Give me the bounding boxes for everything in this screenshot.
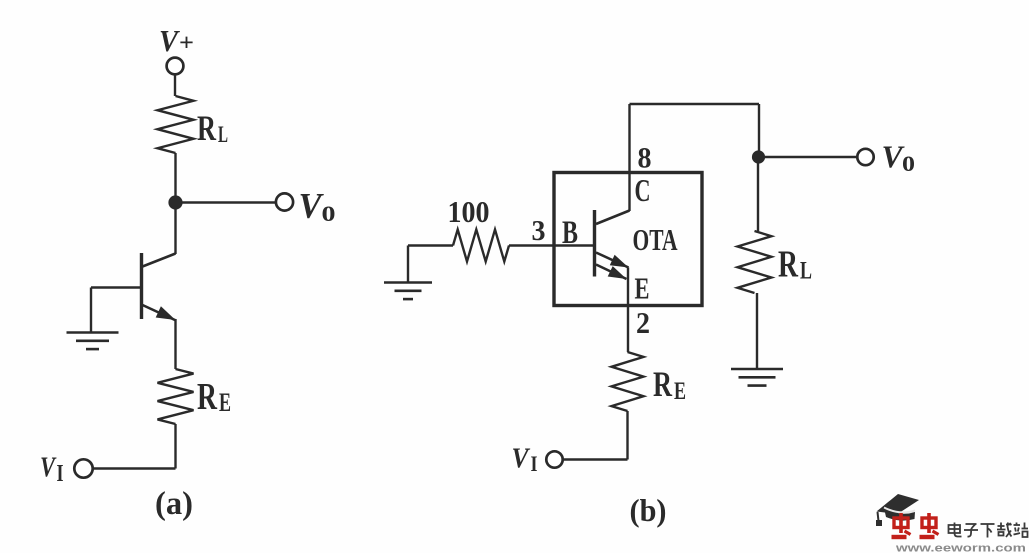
svg-text:I: I (57, 461, 64, 487)
svg-text:3: 3 (532, 215, 546, 247)
svg-text:0: 0 (322, 201, 336, 226)
svg-text:100: 100 (448, 194, 490, 229)
svg-text:(a): (a) (155, 486, 193, 522)
svg-text:0: 0 (902, 151, 915, 176)
svg-text:V: V (40, 452, 57, 484)
svg-text:(b): (b) (630, 492, 667, 528)
svg-text:V: V (512, 443, 531, 475)
svg-text:E: E (674, 378, 686, 405)
svg-text:V: V (299, 186, 325, 226)
svg-text:E: E (635, 271, 650, 306)
svg-text:L: L (218, 122, 228, 147)
svg-text:www.eeworm.com: www.eeworm.com (895, 543, 1026, 553)
svg-text:V: V (159, 23, 180, 58)
svg-text:L: L (800, 258, 812, 285)
svg-text:E: E (219, 388, 231, 417)
svg-text:OTA: OTA (633, 222, 678, 257)
svg-text:+: + (179, 31, 194, 57)
svg-text:R: R (197, 108, 217, 148)
svg-text:2: 2 (636, 305, 650, 340)
svg-text:I: I (531, 451, 538, 476)
svg-text:R: R (653, 364, 673, 404)
svg-text:R: R (778, 244, 798, 286)
svg-text:R: R (197, 376, 217, 418)
svg-text:8: 8 (638, 142, 652, 175)
svg-text:C: C (635, 172, 651, 208)
